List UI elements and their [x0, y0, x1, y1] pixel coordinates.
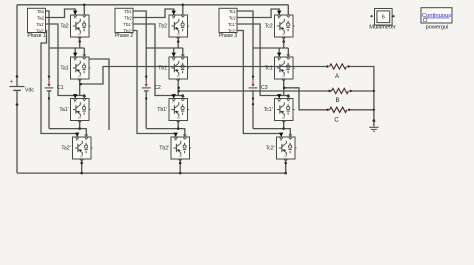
- svg-text:in: in: [174, 138, 177, 142]
- svg-text:C1: C1: [57, 85, 64, 91]
- svg-text:powergui: powergui: [426, 24, 449, 30]
- svg-text:in: in: [76, 138, 79, 142]
- svg-text:Ta1: Ta1: [37, 9, 45, 14]
- svg-text:C: C: [334, 117, 339, 123]
- svg-text:m: m: [78, 33, 81, 37]
- svg-text:m: m: [177, 33, 180, 37]
- svg-text:m: m: [282, 75, 285, 79]
- svg-text:Ta2: Ta2: [37, 15, 45, 20]
- svg-text:B: B: [335, 98, 339, 104]
- svg-text:m: m: [80, 155, 83, 159]
- svg-text:in: in: [172, 100, 175, 104]
- svg-text:Tb1: Tb1: [124, 9, 132, 14]
- svg-text:m: m: [282, 33, 285, 37]
- svg-text:Tc2: Tc2: [229, 15, 236, 20]
- svg-text:in: in: [172, 16, 175, 20]
- svg-text:Tc1': Tc1': [228, 22, 236, 27]
- svg-text:Tb2: Tb2: [158, 24, 167, 30]
- svg-text:in: in: [74, 100, 77, 104]
- svg-text:Tc1: Tc1: [265, 66, 273, 72]
- svg-text:Tb1': Tb1': [123, 22, 132, 27]
- svg-text:m: m: [78, 116, 81, 120]
- svg-text:Continuous: Continuous: [422, 13, 451, 19]
- svg-text:Ta1': Ta1': [59, 107, 68, 113]
- svg-text:Vdc: Vdc: [25, 88, 34, 94]
- svg-text:m: m: [177, 116, 180, 120]
- svg-text:C3: C3: [261, 85, 268, 91]
- svg-text:in: in: [172, 58, 175, 62]
- svg-text:Multimeter: Multimeter: [369, 24, 396, 30]
- svg-text:Tc1': Tc1': [264, 107, 273, 113]
- svg-text:in: in: [280, 138, 283, 142]
- svg-text:Tb2': Tb2': [159, 146, 169, 152]
- svg-text:Ta2: Ta2: [60, 24, 68, 30]
- svg-text:Phase 1: Phase 1: [27, 33, 46, 39]
- svg-text:Tb1': Tb1': [157, 107, 167, 113]
- svg-text:Tb2: Tb2: [124, 15, 132, 20]
- svg-text:Ta1': Ta1': [36, 22, 44, 27]
- svg-text:C2: C2: [154, 85, 161, 91]
- svg-text:in: in: [74, 58, 77, 62]
- svg-text:Tb1: Tb1: [158, 66, 167, 72]
- svg-text:in: in: [278, 58, 281, 62]
- svg-text:Phase 3: Phase 3: [219, 33, 238, 39]
- svg-text:in: in: [278, 100, 281, 104]
- svg-text:Tc1: Tc1: [229, 9, 236, 14]
- svg-text:m: m: [177, 75, 180, 79]
- svg-text:in: in: [278, 16, 281, 20]
- svg-text:Tc2: Tc2: [265, 24, 273, 30]
- svg-text:m: m: [179, 155, 182, 159]
- svg-text:6: 6: [382, 15, 385, 21]
- svg-text:m: m: [284, 155, 287, 159]
- svg-text:Tc2': Tc2': [266, 146, 275, 152]
- svg-text:Ta2': Ta2': [61, 146, 70, 152]
- svg-text:in: in: [74, 16, 77, 20]
- svg-text:Phase 2: Phase 2: [115, 33, 134, 39]
- svg-text:m: m: [282, 116, 285, 120]
- svg-text:A: A: [335, 74, 339, 80]
- svg-text:Ta1: Ta1: [60, 66, 68, 72]
- svg-text:m: m: [78, 75, 81, 79]
- svg-text:+: +: [10, 79, 13, 85]
